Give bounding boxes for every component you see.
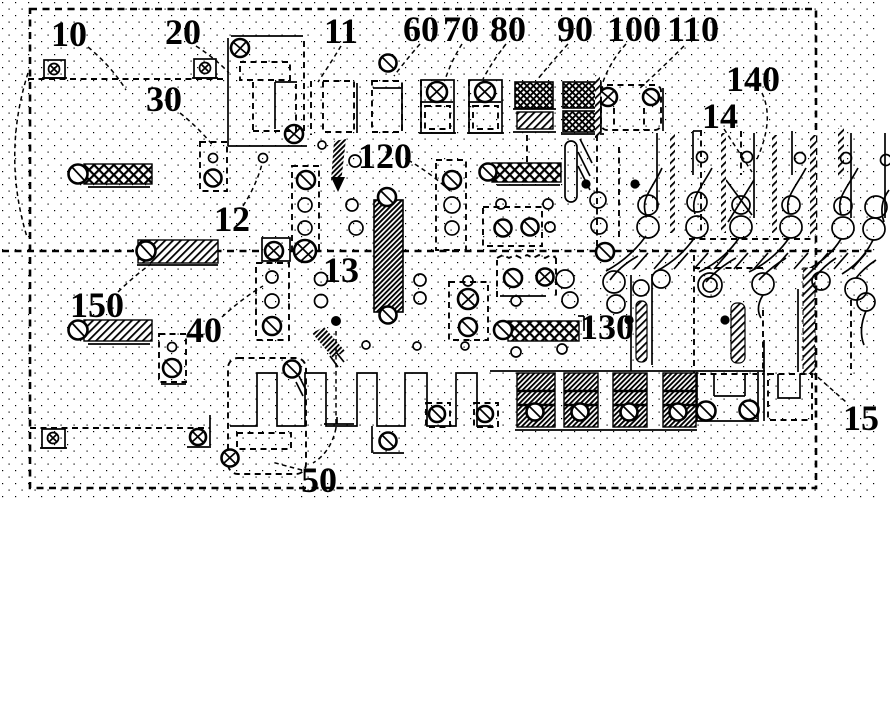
solder dot right of 130 xyxy=(624,315,633,324)
G9: right connector fingers lower xyxy=(603,255,876,375)
hatched diagonal strap 40 area xyxy=(312,327,345,367)
G1: borders and long dashed construction lines xyxy=(2,9,874,488)
leader 15 xyxy=(812,372,846,402)
svg-text:80: 80 xyxy=(490,9,526,49)
leader 30 xyxy=(180,113,214,147)
hatched bar B1 with eyelet xyxy=(69,164,153,187)
hatch sweep strokes below midline xyxy=(634,253,866,269)
hatched pointer mark left of 120 xyxy=(318,139,361,192)
solder dot B xyxy=(630,179,639,188)
component block 20: solid box with slot xyxy=(228,36,307,146)
hatched comb block K3 xyxy=(613,373,647,427)
finger F4 rail and contacts xyxy=(803,128,858,272)
vertical wall line xyxy=(656,133,658,209)
eyelet on comb top xyxy=(284,361,301,378)
leader 80 xyxy=(483,44,506,79)
cross hatched bar with eyelet xyxy=(480,163,562,185)
ring pad below wave at 388 xyxy=(372,426,404,453)
hole circle left of 110 xyxy=(599,88,617,106)
svg-text:30: 30 xyxy=(146,79,182,119)
svg-text:40: 40 xyxy=(186,310,222,350)
leader 10 xyxy=(88,47,126,90)
dashed end cell xyxy=(768,374,812,420)
small circle pointed by 12 xyxy=(259,154,268,163)
loose hatch strokes right of slot xyxy=(578,139,592,190)
small vertical line bottom-left xyxy=(209,415,211,448)
component 100 hatched block xyxy=(561,82,604,134)
short dashed vertical near 100 xyxy=(526,135,528,168)
finger F3 rails and contacts xyxy=(749,131,806,272)
lower finger L4 with rail xyxy=(798,258,836,374)
finger cell separator hatch columns xyxy=(670,133,675,233)
dashed pad strip with three holes xyxy=(292,166,319,250)
inner dashed T-slot of block 20 xyxy=(240,62,290,80)
G7: lower-centre components xyxy=(256,238,634,463)
svg-text:70: 70 xyxy=(443,9,479,49)
top rail of hatched comb xyxy=(490,370,765,372)
dashed box with two holes xyxy=(483,199,555,246)
left outer arc xyxy=(15,73,28,237)
leader 140 xyxy=(757,93,767,159)
halftone stipple of scanned figure area xyxy=(0,0,878,502)
hole circle in 70 xyxy=(427,82,447,102)
dashed pad strip right with three holes xyxy=(436,160,466,250)
bottom-left region dashed line xyxy=(30,427,210,429)
leader 12 xyxy=(243,164,262,206)
leader 120 xyxy=(408,160,450,191)
G5: left room components xyxy=(69,142,228,384)
svg-text:130: 130 xyxy=(580,307,634,347)
leader 100 xyxy=(603,44,626,82)
leader 110 xyxy=(640,46,684,88)
dashed enclosure box 50 xyxy=(228,358,306,474)
svg-text:10: 10 xyxy=(51,14,87,54)
top-left region dashed line xyxy=(28,78,228,80)
leader 150 xyxy=(118,264,151,292)
hatched ring on midline xyxy=(294,240,316,262)
end wall line xyxy=(763,340,765,421)
component 80 box xyxy=(467,80,504,134)
finger F0 contact circles xyxy=(606,168,662,271)
finger F1 rail and contacts xyxy=(655,130,712,272)
leader 14 xyxy=(724,129,752,172)
hatched bar 130 with eyelet xyxy=(494,316,584,357)
dashed shelf line lower-right xyxy=(694,267,766,269)
svg-text:140: 140 xyxy=(726,59,780,99)
solder dot A xyxy=(581,179,590,188)
hole circle bottom-right of block 20 xyxy=(285,125,303,143)
component 60 box xyxy=(372,55,402,133)
svg-text:14: 14 xyxy=(702,96,738,136)
svg-text:90: 90 xyxy=(557,9,593,49)
underline below comb blocks xyxy=(515,429,697,431)
svg-text:120: 120 xyxy=(358,136,412,176)
holes beside 13 xyxy=(315,273,328,286)
tall hatched bar 120 xyxy=(374,188,403,324)
hatched comb block K1 xyxy=(517,373,555,427)
hatched bar B2 on midline with eyelet xyxy=(137,240,219,265)
hatched bar B3 with eyelet xyxy=(69,320,153,344)
end box with two eyelets xyxy=(697,372,759,421)
hole circle right of 110 box xyxy=(643,89,659,105)
ring pad in notch A xyxy=(426,403,450,427)
eyelet bottom-left of box 50 xyxy=(222,450,239,467)
T-bar under leader 50 xyxy=(324,417,354,424)
lower finger L3 xyxy=(752,258,786,375)
dashed slot 11 xyxy=(311,81,357,135)
svg-text:12: 12 xyxy=(214,199,250,239)
dashed pad box pointed by 30 xyxy=(200,142,227,191)
G8: right connector fingers upper xyxy=(606,128,890,274)
svg-text:150: 150 xyxy=(70,285,124,325)
small dashed pad rect inside xyxy=(237,433,291,449)
svg-text:15: 15 xyxy=(843,398,879,438)
svg-text:110: 110 xyxy=(667,9,719,49)
G3: leader lines xyxy=(88,44,846,470)
solder dot under 13 xyxy=(331,316,341,326)
dashed pad strip with holes xyxy=(449,276,488,350)
lower finger L5 outside border xyxy=(845,260,876,375)
lower finger L2 with hatched bar xyxy=(694,255,745,375)
leader 90 xyxy=(537,44,568,80)
dashed box with three holes below midline xyxy=(497,255,578,308)
svg-text:20: 20 xyxy=(165,12,201,52)
svg-text:100: 100 xyxy=(607,9,661,49)
leader 40 xyxy=(222,286,263,317)
ring pad in notch B xyxy=(474,403,498,427)
component 90 hatched block xyxy=(513,82,556,132)
lower finger L1 with hatched bar xyxy=(631,270,670,371)
small holes xyxy=(362,341,370,349)
G6: centre components xyxy=(259,133,658,324)
leader to 50 xyxy=(313,331,336,463)
finger F5 partial at edge xyxy=(842,196,887,274)
hole circle top-left of block 20 xyxy=(231,39,249,57)
lower finger L0 xyxy=(603,256,638,313)
hole circle above 60 xyxy=(380,55,397,72)
dashed pad strip below 12 xyxy=(256,263,289,340)
leader 20 xyxy=(196,46,229,73)
leader 50 xyxy=(272,462,302,470)
dashed rail pair with holes xyxy=(590,135,619,248)
hatched comb block K4 xyxy=(663,373,696,427)
leader 70 xyxy=(446,44,462,77)
component 70 box xyxy=(419,80,456,134)
pad P2 xyxy=(192,59,218,78)
far right edge finger partial xyxy=(881,133,890,222)
outer dashed board border xyxy=(30,9,816,488)
hatched strip left of 110 box xyxy=(595,75,600,138)
small dashed pad box below 40 xyxy=(159,334,186,384)
svg-text:11: 11 xyxy=(324,11,358,51)
solid pad box on midline xyxy=(262,238,290,261)
leader 60 xyxy=(394,44,420,76)
hole circle in 80 xyxy=(475,82,495,102)
G10: bottom comb structure xyxy=(40,340,812,474)
square wave trace xyxy=(230,373,493,426)
pad P3 on bottom dashed line xyxy=(40,429,67,448)
pad P4 ring on bottom dashed line xyxy=(187,429,209,447)
right fingers dashed line xyxy=(689,238,816,240)
vertical slot stadium xyxy=(565,141,577,202)
ring on midline xyxy=(596,243,614,261)
horizontal mid dashed line xyxy=(2,250,874,253)
svg-text:13: 13 xyxy=(323,250,359,290)
pad P1 top-left xyxy=(42,60,67,78)
G4: top row components xyxy=(42,36,663,146)
G2: reference numeral labels xyxy=(51,9,879,500)
finger F2 rail and contacts xyxy=(699,131,754,272)
leader 11 xyxy=(318,46,341,82)
small holes right of pad strip xyxy=(346,199,358,211)
svg-text:60: 60 xyxy=(403,9,439,49)
component 110 dashed box xyxy=(595,75,663,138)
hatched comb block K2 xyxy=(564,373,598,427)
